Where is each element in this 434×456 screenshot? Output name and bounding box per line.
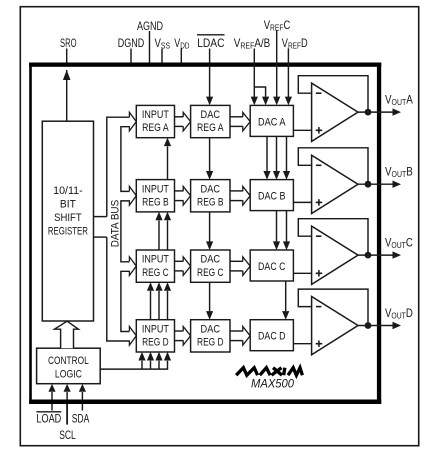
svg-text:INPUT: INPUT [142, 109, 169, 121]
wire SDA input to control logic [81, 392, 83, 400]
wire input reg D to DAC reg D (double stem open arrow) [175, 327, 191, 346]
DAC D [250, 320, 293, 351]
DAC register D [191, 320, 230, 352]
op-amp A [312, 83, 358, 141]
svg-text:LOGIC: LOGIC [55, 369, 82, 381]
wire SRO to shift register with up arrow [66, 70, 68, 121]
wire input reg B to DAC reg B (double stem open arrow) [175, 186, 191, 205]
DAC B [250, 180, 293, 211]
DAC register C [191, 250, 230, 282]
svg-text:DAC: DAC [201, 183, 221, 195]
wire data bus segment B-C [121, 201, 130, 262]
svg-text:VOUTC: VOUTC [385, 235, 413, 250]
wire DAC reg C to DAC C (double stem open arrow) [230, 257, 250, 276]
wire LDAC chain DAC reg B to C [209, 212, 211, 242]
node op-amp B output junction [365, 181, 372, 188]
wire DAC B to op-amp B input [293, 201, 311, 203]
wire VDD tick [180, 49, 182, 63]
input register D [136, 320, 174, 352]
wire VSS tick [161, 49, 163, 63]
svg-text:DAC C: DAC C [258, 261, 286, 273]
wire control lines input reg B to A (1 arrow) [164, 138, 171, 180]
svg-text:INPUT: INPUT [142, 254, 169, 266]
svg-text:VOUTD: VOUTD [385, 306, 413, 321]
wire VOUTA output arrow [358, 111, 393, 113]
wire DAC D to op-amp D input [293, 343, 311, 345]
wire shift register to data bus (lower tap) [94, 236, 107, 238]
node op-amp C output junction [365, 252, 372, 259]
DAC register B [191, 180, 230, 212]
svg-text:SRO: SRO [60, 36, 77, 50]
svg-text:VOUTA: VOUTA [385, 92, 413, 107]
wire DAC reg B to DAC B (double stem open arrow) [230, 186, 250, 205]
wire SCL input to control logic [66, 392, 68, 400]
svg-text:SDA: SDA [72, 412, 90, 426]
input register C [136, 250, 174, 282]
svg-text:REG A: REG A [142, 122, 169, 134]
wire control lines up into input reg D (4 arrows) [138, 352, 171, 369]
wire data bus riser to input reg D [107, 237, 130, 341]
wire VREFC down to DAC A [276, 30, 278, 97]
wire control logic trunk to input registers [100, 361, 167, 369]
wire op-amp A feedback loop [298, 76, 368, 112]
wire Vref pass-through DAC B to DAC C (2 lines) [273, 211, 290, 251]
svg-text:VREFA/B: VREFA/B [234, 36, 270, 51]
op-amp B [312, 155, 358, 213]
wire SRO tick [66, 49, 68, 63]
shift register U1 (10/11-bit) [42, 121, 93, 321]
svg-text:REG B: REG B [142, 196, 169, 208]
svg-text:REG C: REG C [142, 267, 169, 279]
wire VREFA/B down to DAC A [253, 49, 255, 98]
wire control lines input reg D to C (3 arrows) [147, 282, 171, 320]
wire data bus riser to input reg A [107, 117, 130, 216]
wire LDAC chain DAC reg C to D [209, 282, 211, 311]
svg-text:DAC A: DAC A [258, 116, 286, 128]
svg-text:DAC: DAC [201, 323, 221, 335]
wire LDAC into chip with down arrow to DAC REG A [209, 49, 211, 63]
svg-text:REG A: REG A [197, 122, 224, 134]
svg-text:REG D: REG D [142, 337, 169, 349]
op-amp D [312, 297, 358, 355]
svg-text:VREFD: VREFD [282, 36, 308, 51]
svg-text:LOAD: LOAD [36, 412, 61, 426]
wire Vref pass-through DAC A to DAC B (3 lines) [263, 136, 290, 179]
op-amp C [312, 226, 358, 284]
wire op-amp D feedback loop [298, 289, 368, 325]
MAXIM logo [236, 368, 302, 376]
pin SCL label [66, 404, 68, 425]
wire bus arrow into input reg B [129, 186, 136, 205]
DAC A [250, 105, 293, 136]
wire bus arrow into input reg A [129, 112, 136, 131]
svg-text:AGND: AGND [137, 19, 163, 33]
svg-text:LDAC: LDAC [197, 36, 225, 50]
svg-text:CONTROL: CONTROL [48, 355, 89, 367]
svg-text:REG D: REG D [197, 337, 224, 349]
wire LDAC chain DAC reg A to B [209, 138, 211, 172]
wire DAC reg A to DAC A (double stem open arrow) [230, 112, 250, 131]
svg-text:BIT: BIT [60, 199, 76, 211]
wire bus arrow into input reg D [129, 327, 136, 346]
wire shift register to data bus (upper tap) [94, 216, 107, 218]
control logic block [37, 348, 101, 384]
wire VOUTB output arrow [358, 183, 393, 185]
svg-text:DAC: DAC [201, 109, 221, 121]
node op-amp A output junction [365, 109, 372, 116]
DAC C [250, 250, 293, 281]
MAX500 chip boundary [29, 63, 381, 405]
wire control lines input reg C to B (2 arrows) [155, 212, 171, 250]
svg-text:DAC B: DAC B [258, 191, 286, 203]
svg-text:INPUT: INPUT [142, 183, 169, 195]
wire AGND tick [149, 31, 151, 63]
svg-text:DGND: DGND [118, 36, 145, 50]
svg-text:DATA BUS: DATA BUS [109, 200, 121, 248]
wire data bus segment C-D [121, 271, 130, 331]
wire input reg C to DAC reg C (double stem open arrow) [175, 257, 191, 276]
wire VOUTD output arrow [358, 325, 393, 327]
wire data bus segment A-B [121, 127, 130, 192]
svg-text:SCL: SCL [59, 428, 76, 442]
pin LOAD label (active low) [51, 404, 53, 411]
wire VREFA/B branch to DAC A [254, 87, 265, 97]
svg-text:DAC: DAC [201, 254, 221, 266]
svg-text:REG B: REG B [197, 196, 224, 208]
svg-text:INPUT: INPUT [142, 323, 169, 335]
wire Vref pass-through DAC C to DAC D (1 line) [282, 281, 289, 320]
input register B [136, 180, 174, 212]
svg-text:MAX500: MAX500 [251, 376, 294, 390]
wire input reg A to DAC reg A (double stem open arrow) [175, 112, 191, 131]
svg-text:REG C: REG C [197, 267, 224, 279]
pin SDA label [81, 404, 83, 411]
DAC register A [191, 105, 230, 137]
wire DAC A to op-amp A input [293, 129, 311, 131]
wire bus arrow into input reg C [129, 257, 136, 276]
wire VREFD down to DAC A [287, 49, 289, 98]
wire DGND tick [130, 49, 132, 63]
svg-text:SHIFT: SHIFT [54, 212, 82, 224]
svg-text:DAC D: DAC D [258, 331, 286, 343]
svg-text:10/11-: 10/11- [53, 185, 83, 197]
wire VOUTC output arrow [358, 254, 393, 256]
svg-text:VOUTB: VOUTB [385, 164, 413, 179]
svg-text:REGISTER: REGISTER [48, 226, 88, 238]
wire op-amp B feedback loop [298, 148, 368, 184]
wire op-amp C feedback loop [298, 219, 368, 255]
input register A [136, 105, 174, 137]
wire DAC C to op-amp C input [293, 272, 311, 274]
wire control logic to shift register (wide open up arrow) [55, 321, 79, 348]
node op-amp D output junction [365, 322, 372, 329]
wire DAC reg D to DAC D (double stem open arrow) [230, 327, 250, 346]
wire LOAD input to control logic [51, 392, 53, 400]
